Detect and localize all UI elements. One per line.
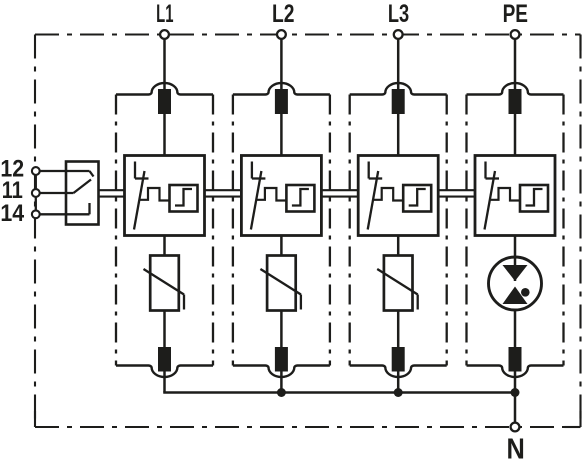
wire terminal PE to top blade contact	[514, 39, 517, 91]
enclosure dashed border	[35, 35, 581, 428]
terminal PE	[511, 30, 520, 39]
terminal L3	[394, 30, 403, 39]
label N	[506, 432, 524, 465]
wire bottom blade to N bus PE	[514, 372, 517, 393]
module box channel L2	[233, 83, 330, 377]
thermal disconnector U3 channel L3	[358, 156, 438, 236]
varistor RV1 channel L1	[144, 256, 185, 311]
wire terminal 12 to contact	[40, 171, 94, 177]
wire arrester to bottom blade PE	[514, 311, 517, 349]
terminal L2	[277, 30, 286, 39]
bottom blade contact channel L1	[158, 347, 171, 372]
wire blade to disconnector box PE	[514, 114, 517, 156]
wire arrester to bottom blade L2	[280, 311, 283, 349]
wire arrester to bottom blade L3	[397, 311, 400, 349]
svg-text:14: 14	[0, 199, 24, 226]
terminal 14	[32, 210, 40, 218]
wire blade to disconnector box L2	[280, 114, 283, 156]
left border link through terminals	[35, 171, 37, 214]
module box channel L1	[116, 83, 213, 377]
terminal L1	[160, 30, 169, 39]
wire blade to disconnector box L3	[397, 114, 400, 156]
label L1	[156, 0, 173, 28]
terminal N	[511, 423, 520, 432]
wire arrester to bottom blade L1	[163, 311, 166, 349]
N bus wire	[163, 391, 515, 393]
wire terminal L3 to top blade contact	[397, 39, 400, 91]
junction node L2/N bus	[277, 388, 286, 397]
thermal disconnector U4 channel PE	[475, 156, 555, 236]
bottom blade contact channel L2	[275, 347, 288, 372]
varistor RV2 channel L2	[260, 256, 301, 311]
module box channel PE	[467, 83, 564, 377]
wire terminal 11 to contact	[40, 192, 74, 194]
wire terminal L1 to top blade contact	[163, 39, 166, 91]
terminal 11	[32, 189, 40, 197]
svg-text:N: N	[506, 432, 524, 465]
terminal 12	[32, 167, 40, 175]
label 12	[0, 154, 24, 181]
top blade contact channel PE	[509, 89, 522, 114]
label L3	[388, 0, 409, 28]
label L2	[272, 0, 294, 27]
thermal disconnector U2 channel L2	[241, 156, 321, 236]
svg-text:L1: L1	[156, 0, 173, 28]
wire N bus to terminal N	[514, 393, 517, 423]
svg-text:L2: L2	[272, 0, 294, 27]
label 14	[0, 199, 24, 226]
wire disconnector to arrester L1	[163, 236, 166, 257]
top blade contact channel L2	[275, 89, 288, 114]
wire bottom blade to N bus L2	[280, 372, 283, 393]
wire bottom blade to N bus L3	[397, 372, 400, 393]
label PE	[503, 0, 528, 27]
thermal disconnector U1 channel L1	[125, 156, 205, 236]
wire disconnector to arrester PE	[514, 236, 517, 257]
wire bottom blade to N bus L1	[163, 372, 166, 393]
wire terminal 14 to contact	[40, 203, 90, 214]
label 11	[2, 176, 23, 203]
wire disconnector to arrester L2	[280, 236, 283, 257]
top blade contact channel L1	[158, 89, 171, 114]
bottom blade contact channel PE	[509, 347, 522, 372]
mechanical linkage double-line bus	[99, 190, 476, 196]
wire terminal L2 to top blade contact	[280, 39, 283, 91]
spark gap F1 channel PE (total discharge current arrester)	[489, 256, 542, 310]
junction node PE/N bus	[511, 388, 520, 397]
wire blade to disconnector box L1	[163, 114, 166, 156]
wire disconnector to arrester L3	[397, 236, 400, 257]
junction node L3/N bus	[394, 388, 403, 397]
top blade contact channel L3	[392, 89, 405, 114]
svg-text:PE: PE	[503, 0, 528, 27]
module box channel L3	[350, 83, 447, 377]
remote signalling changeover contact S1	[66, 162, 99, 225]
varistor RV3 channel L3	[377, 256, 418, 311]
svg-text:L3: L3	[388, 0, 409, 28]
bottom blade contact channel L3	[392, 347, 405, 372]
